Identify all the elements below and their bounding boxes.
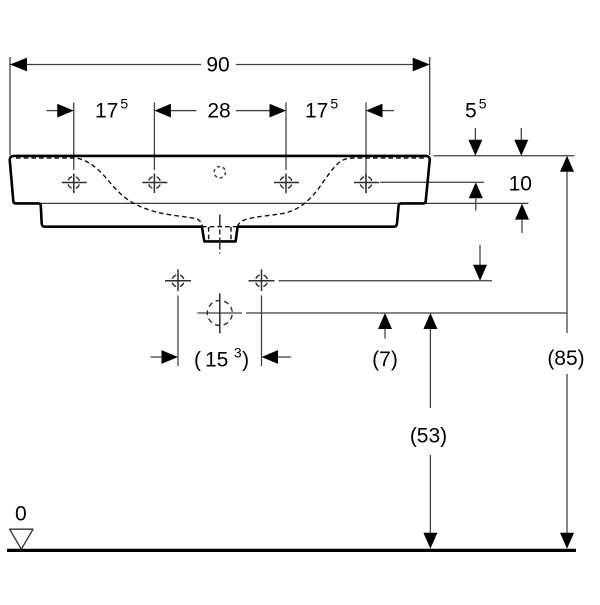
svg-text:90: 90 xyxy=(206,53,229,76)
dimension 28: right arrow xyxy=(236,110,270,112)
dim 53 vertical line xyxy=(429,329,431,408)
drain boss inner dashed wall left xyxy=(208,227,210,241)
tap hole 4 crosshair xyxy=(354,174,379,194)
svg-text:0: 0 xyxy=(15,503,27,526)
reference line basin front edge xyxy=(41,202,529,204)
tap hole 3 crosshair xyxy=(274,174,299,194)
fixing hole right crosshair xyxy=(249,269,275,291)
drain vertical centerline xyxy=(219,293,221,333)
dim 53 up arrow xyxy=(423,313,437,329)
drain boss inner dashed wall right xyxy=(230,227,232,241)
bowl contour dashed left xyxy=(16,158,203,227)
svg-text:(85): (85) xyxy=(547,347,584,370)
dim 85 down arrow xyxy=(560,533,574,549)
dim 5.5 down arrow xyxy=(474,128,476,141)
tap hole 2 crosshair xyxy=(142,174,167,194)
extension line right of dim 90 xyxy=(429,57,431,155)
overflow dashed circle xyxy=(214,167,225,178)
tap hole 1 crosshair xyxy=(62,174,87,194)
dimension 17.5 left: tail and arrow xyxy=(47,110,59,112)
dim 15.3 left arrow xyxy=(151,356,163,358)
dim 7 up arrow xyxy=(378,313,392,329)
extension line fixing hole left down xyxy=(177,296,179,367)
svg-text:(7): (7) xyxy=(372,348,398,371)
drain boss centerline xyxy=(219,215,221,254)
extension line fixing hole right down xyxy=(261,296,263,367)
reference line rim top right extension xyxy=(434,155,575,157)
dim 15.3 right arrow xyxy=(262,350,279,364)
extension line tap hole 4 xyxy=(365,103,367,194)
extension line tap hole 1 xyxy=(73,103,75,171)
extension line left of dim 90 xyxy=(9,57,11,155)
dim 10 up arrow xyxy=(515,204,529,220)
washbasin outline xyxy=(10,156,430,242)
extension line tap hole 3 xyxy=(285,103,287,171)
arrow right of dim 90 xyxy=(413,58,430,72)
dim 5.5 up arrow xyxy=(469,182,483,198)
floor line xyxy=(7,549,576,552)
bowl contour dashed right xyxy=(237,158,426,227)
datum triangle xyxy=(10,529,33,549)
fixing hole left crosshair xyxy=(165,269,191,291)
dim 85 vertical line xyxy=(566,172,568,333)
drain boss dashed top bridge xyxy=(202,226,238,228)
dim 7 down arrow xyxy=(479,245,481,266)
dimension line 90 xyxy=(10,64,201,66)
drain dashed circle xyxy=(207,301,232,326)
dim 85 up arrow xyxy=(560,156,574,172)
reference line drain height xyxy=(198,312,243,314)
dimension 17.5 right: arrow and tail xyxy=(366,104,383,118)
dim 10 down arrow xyxy=(520,128,522,141)
dimension 28: left arrow xyxy=(154,104,171,118)
svg-text:28: 28 xyxy=(207,99,230,122)
dim 53 down arrow xyxy=(423,533,437,549)
reference line fixing holes xyxy=(279,280,493,282)
extension line tap hole 2 xyxy=(153,103,155,171)
svg-text:10: 10 xyxy=(509,173,532,196)
svg-text:(53): (53) xyxy=(410,425,447,448)
reference line tap hole height xyxy=(380,181,484,183)
arrow left of dim 90 xyxy=(10,58,27,72)
